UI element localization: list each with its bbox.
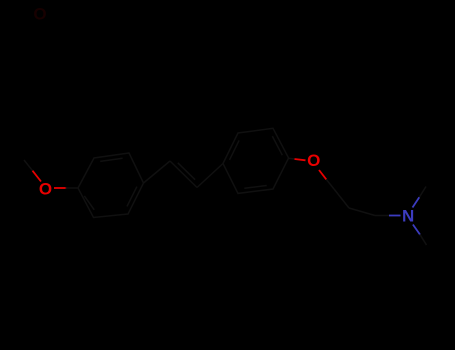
svg-text:O: O (307, 151, 320, 170)
bond Cc-N dark half (375, 215, 389, 217)
left benzene ring outline (78, 153, 144, 218)
bond O1-ring red half (54, 187, 67, 189)
bond vinyl C2-right ring (197, 164, 223, 188)
vinyl double bond C1=C2 main (170, 161, 197, 188)
left ring inner double bond right (127, 187, 137, 207)
right ring inner double bond left (230, 140, 240, 160)
bond ring-vinyl C1 (144, 161, 171, 183)
bond ring-O2 dark half (289, 157, 295, 160)
bond O2-Ca dark half (326, 179, 334, 189)
right ring inner double bond bottom (244, 186, 266, 189)
bond O2-Ca red half (319, 170, 326, 179)
bond N-CH3 upper blue half (413, 197, 420, 207)
bond Cb-Cc (349, 208, 375, 216)
bond O1-ring dark half (66, 187, 79, 189)
left ring inner double bond left (84, 196, 94, 210)
svg-text:N: N (402, 207, 414, 226)
vinyl double bond C1=C2 parallel (178, 163, 195, 180)
bond Cc-N blue half (389, 215, 401, 217)
bond N-CH3 lower dark half (420, 234, 427, 245)
bond CH3-O1 dark half (24, 160, 33, 171)
right ring inner double bond right (272, 136, 282, 155)
bond Ca-Cb (334, 189, 349, 208)
left ring inner double bond top (100, 158, 122, 161)
svg-text:O: O (33, 5, 46, 24)
right benzene ring outline (223, 128, 289, 193)
bond ring-O2 red half (295, 159, 306, 160)
bond CH3-O1 red half (33, 171, 42, 182)
svg-text:O: O (39, 180, 52, 199)
bond N-CH3 lower blue half (413, 225, 420, 236)
bond N-CH3 upper dark half (419, 187, 426, 198)
